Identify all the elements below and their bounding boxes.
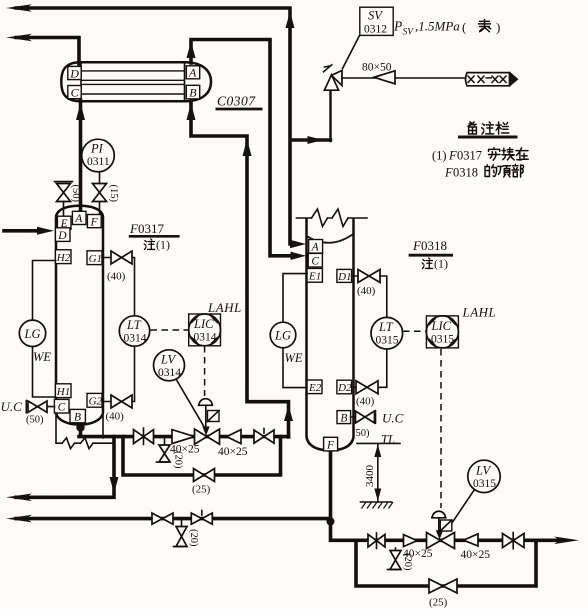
tubesheet right (184, 62, 186, 101)
arrow left line 2 (6, 515, 32, 523)
arrow left second line (6, 34, 32, 42)
instrument LT0315 (371, 317, 403, 349)
instrument LV0315 (468, 460, 500, 492)
gate valve 2 on F0317 bottom line (254, 430, 264, 443)
arrow left top line (6, 4, 32, 12)
nozzle box D2 (337, 380, 352, 394)
gauge LG (F0318) (283, 274, 307, 388)
nozzle box D1 (337, 269, 352, 282)
valve (15) below PI0311 (99, 172, 101, 217)
wire: bypass around LV0314 (123, 437, 281, 475)
LV0314 actuator stem, positioner, diaphragm (205, 405, 207, 431)
header 备注栏 (468, 122, 476, 134)
U.C valve at B nozzle (351, 411, 376, 423)
nozzle box H2 (55, 250, 71, 264)
tubesheet left (80, 62, 82, 101)
nozzle box G2 (87, 393, 102, 407)
drain valve (20) line2 (181, 519, 183, 527)
U.C valve at C nozzle (26, 401, 54, 413)
wire: SV branch (329, 90, 331, 141)
wire: exchanger A line down to F0318 C (191, 40, 294, 256)
arrow up into exchanger B (187, 103, 196, 120)
arrow up into exchanger C (76, 103, 85, 120)
vessel F0318 shell (307, 218, 354, 437)
nozzle box B (bottom) (70, 409, 85, 422)
LV0315 actuator stem, positioner, diaphragm (438, 518, 440, 535)
arrow up on x290 riser (286, 12, 295, 29)
G2 tap valve (40) and line from LT0314 (102, 346, 135, 401)
controller LIC0315 (426, 316, 458, 348)
leader line SV box to valve (343, 36, 360, 69)
wire: exchanger C riser from F0317 A (79, 100, 83, 212)
vent silencer (466, 73, 510, 86)
arrow right into F0317 D (37, 227, 54, 235)
leader LV0315 to valve (447, 490, 475, 532)
instrument PI0311 (82, 139, 115, 172)
dashed signal LIC0315 down to valve (440, 349, 442, 508)
vessel F0318 top line with zigzag breaks (297, 209, 368, 227)
wire: bypass around LV0315 (356, 540, 536, 586)
drain valve (20) bottom main (395, 548, 397, 551)
nozzle box F (87, 215, 101, 228)
ground symbol (361, 501, 392, 503)
arrow right bottom main out (554, 537, 579, 545)
heat exchanger C0307 shell (61, 62, 211, 101)
dimension 3400 (357, 443, 400, 502)
nozzle box C (308, 253, 322, 267)
nozzle box D (55, 228, 70, 242)
nozzle box E1 (307, 268, 322, 282)
nozzle box E2 (307, 380, 322, 394)
scan noise overlay (0, 0, 1, 1)
SV0312 tag box (360, 7, 393, 35)
safety valve PSV (324, 75, 338, 90)
wire: F0317 bottom main line (79, 423, 289, 437)
wire: top exit line to left arrow (16, 8, 294, 244)
gate valve 1 on F0317 bottom line (134, 430, 144, 444)
wire: inlet into F0317 D (4, 229, 39, 233)
instrument LT0314 (119, 316, 149, 346)
reducer 40x25 right (main2) (464, 534, 479, 546)
nozzle box B (337, 411, 351, 424)
nozzle box A (186, 66, 199, 79)
dashed signal LT0314 to LIC0314 (151, 329, 189, 331)
tube lines (81, 71, 185, 94)
junction dot below F0317 B (76, 423, 84, 431)
nozzle box C (54, 399, 69, 413)
leader LV0314 to valve (176, 379, 205, 428)
reducer on vent line (374, 71, 395, 84)
wire: bottom line 2 (16, 517, 331, 521)
gauge LG (F0317) (33, 261, 56, 398)
arrow up on exchanger A riser (187, 42, 196, 59)
gate valve b line2 (191, 513, 202, 524)
vessel F0317 bottom head (56, 413, 103, 425)
arrow right into F0318 C (291, 252, 307, 260)
D2 tap valve (40) and line from LT0315 (352, 349, 387, 387)
vessel F0318 bottom head (307, 437, 354, 450)
arrow up on x288 riser (284, 405, 293, 421)
vent line 80x50 (342, 77, 465, 79)
arrow left line 1 (6, 494, 32, 502)
D1 tap valve (40) and line to LT0315 (352, 276, 387, 317)
junction dot line2 tee (327, 518, 335, 526)
gate valve 1 bottom main (368, 534, 377, 547)
bypass valve (25) F0318 (429, 579, 443, 593)
drain valve (20) on F0317 line (164, 437, 166, 445)
control valve LV0315 body (427, 533, 441, 549)
dashed signal LIC0314 down to valve (204, 346, 206, 396)
controller LIC0314 (189, 314, 221, 346)
instrument LV0314 (154, 350, 185, 381)
arrow right on SV branch (308, 136, 324, 144)
G1 tap valve (40) and line to LT0314 (102, 258, 135, 317)
wire: exchanger B line from F0317 bottom (191, 100, 289, 437)
reducer 40x25 left (main2) (404, 535, 418, 547)
arrow up on x247 riser (243, 139, 252, 156)
bypass valve (25) F0317 (194, 469, 205, 482)
nozzle box C (68, 86, 81, 99)
vessel F0317 shell (56, 206, 103, 413)
control valve LV0314 body (195, 429, 208, 444)
skirt break line with zigzags (56, 438, 114, 449)
nozzle box G1 (87, 251, 102, 265)
dashed signal LT0315 to LIC0315 (403, 330, 426, 332)
gate valve 2 bottom main (503, 533, 514, 547)
nozzle box F (324, 437, 338, 451)
vessel F0317 skirt walls (56, 413, 103, 443)
wire: second exit line from exchanger D (16, 38, 79, 65)
nozzle box E (57, 216, 71, 229)
wire: F0318 F downcomer and bottom main line (331, 450, 561, 540)
nozzle box H1 (55, 384, 71, 398)
nozzle box D (68, 66, 81, 79)
nozzle box A (72, 211, 86, 224)
nozzle box B (186, 85, 199, 99)
arrow down on x114 drop (110, 477, 119, 493)
vessel F0318 dished head inside (308, 235, 353, 243)
reducer 40x25 left (172, 430, 195, 444)
valve (50) above E (63, 202, 65, 217)
wire: tee down to left arrow line 1 (16, 437, 114, 498)
nozzle box A (309, 240, 323, 254)
arrow right into F0318 A (290, 240, 306, 248)
reducer 40x25 right (227, 430, 241, 444)
gate valve a line2 (152, 513, 163, 524)
